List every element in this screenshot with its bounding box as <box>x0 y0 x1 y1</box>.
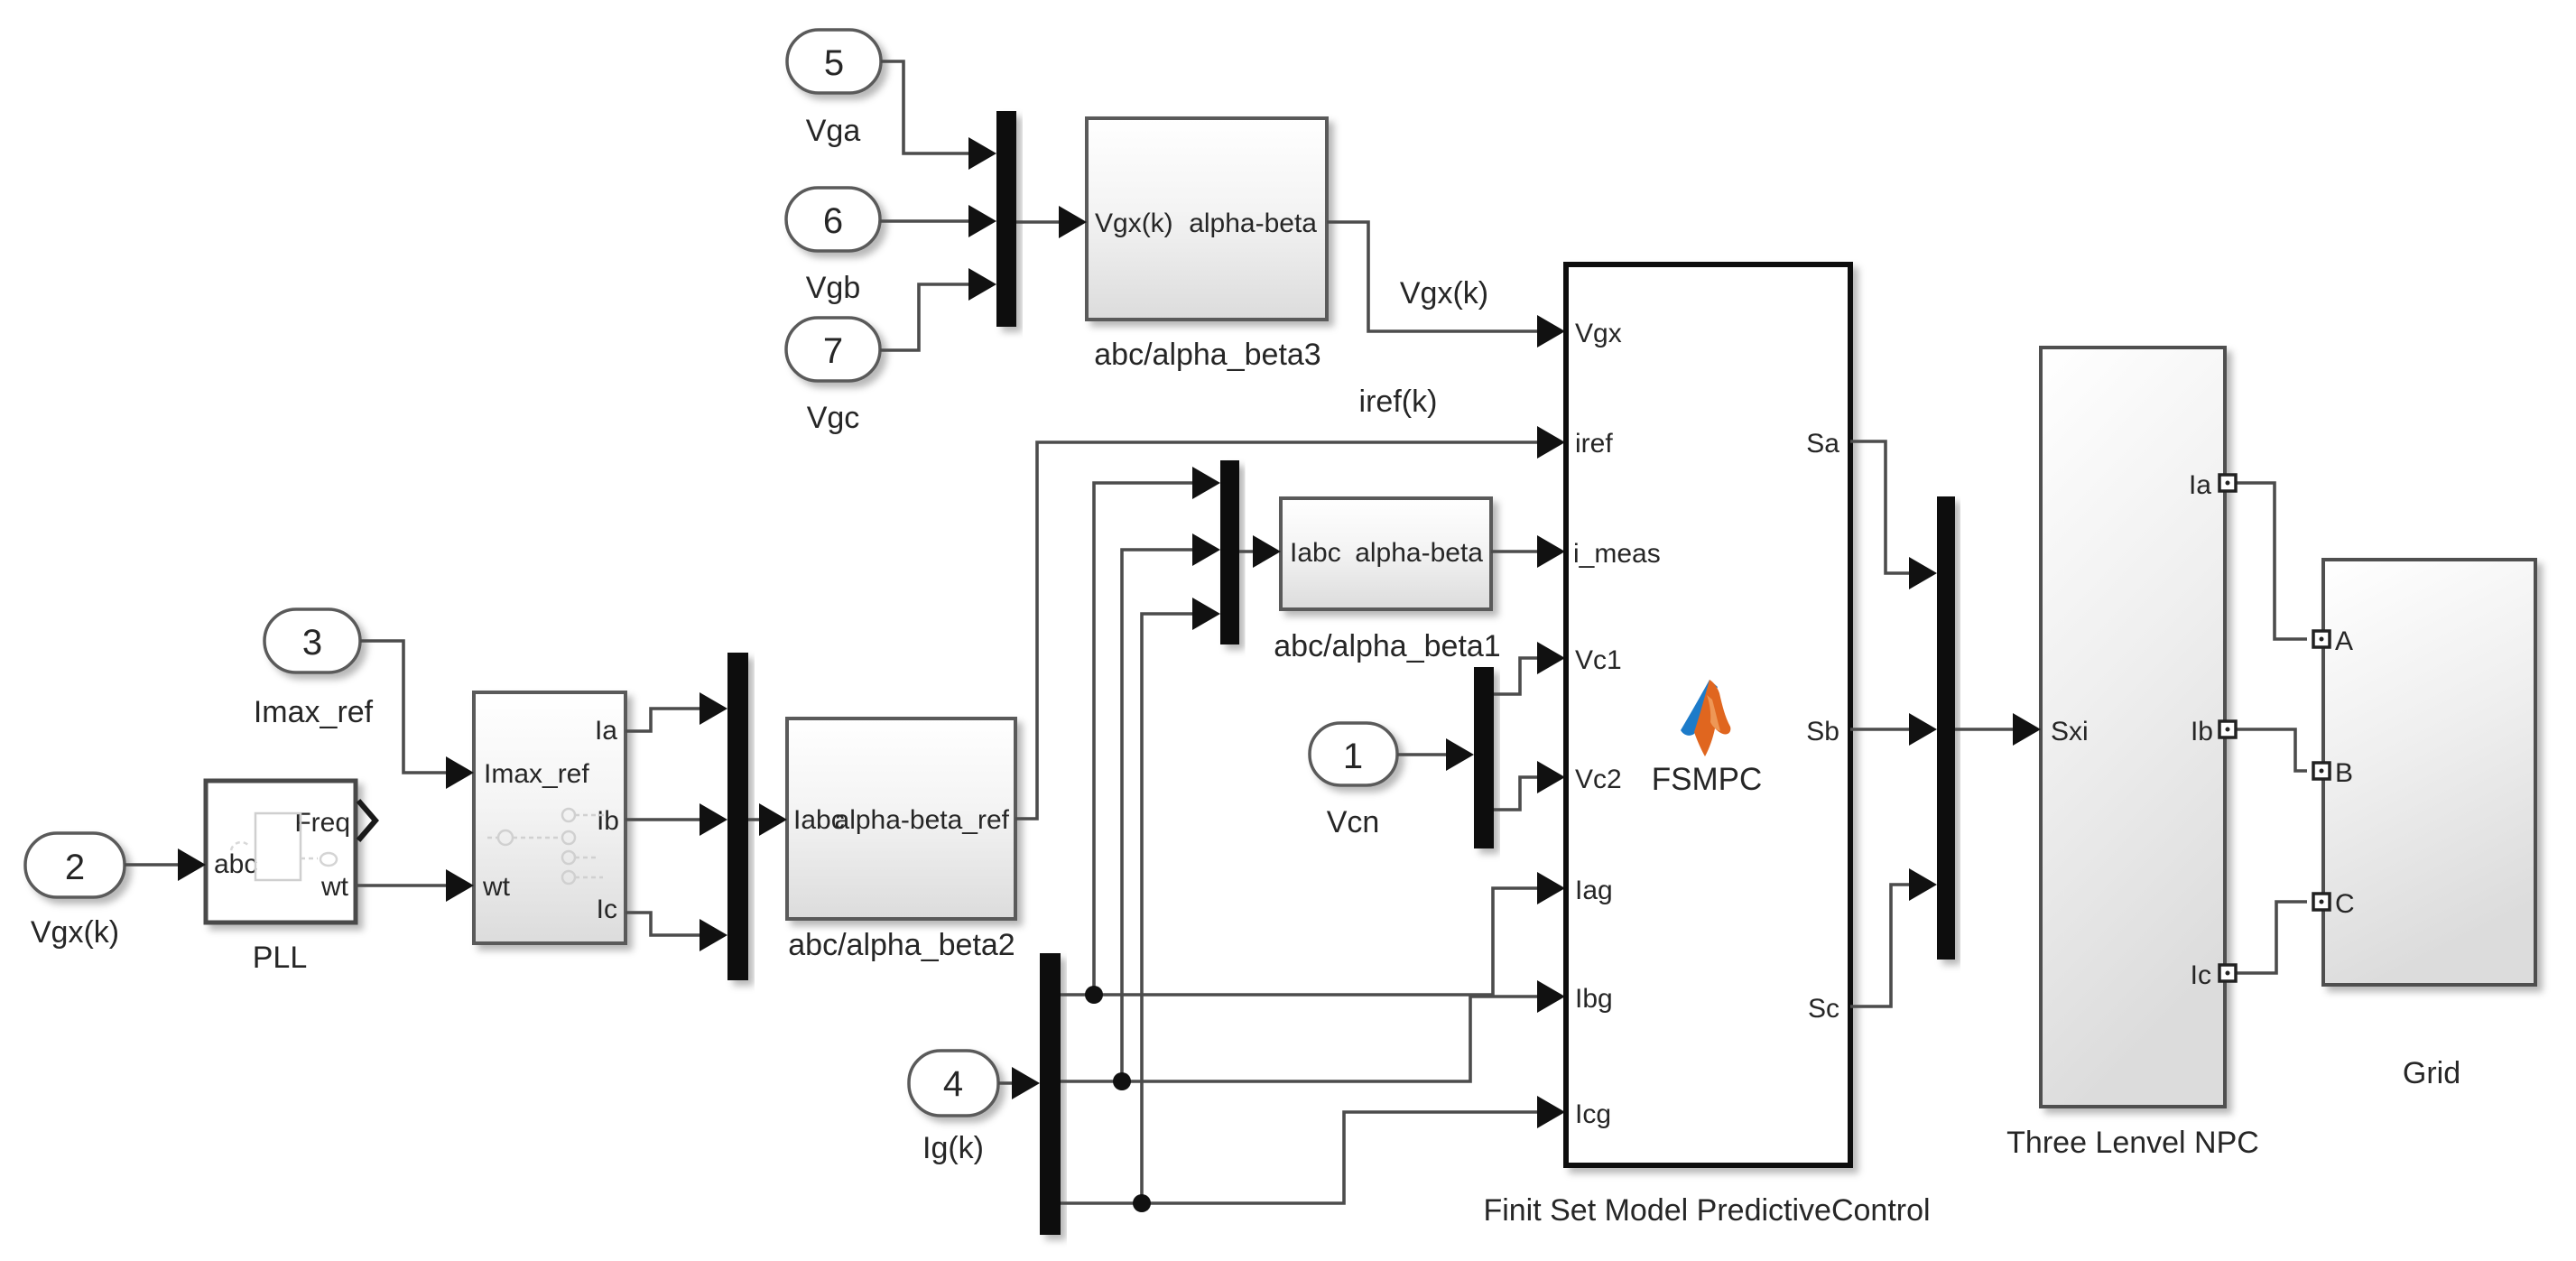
wire Ibg <box>1061 997 1542 1081</box>
junction node Icg <box>1133 1194 1151 1212</box>
svg-text:Vgx(k): Vgx(k) <box>31 915 119 950</box>
svg-text:Vc2: Vc2 <box>1575 765 1622 794</box>
svg-text:A: A <box>2335 626 2353 656</box>
svg-text:Vga: Vga <box>806 114 861 148</box>
svg-text:Sb: Sb <box>1806 717 1839 746</box>
svg-text:iref(k): iref(k) <box>1359 385 1438 419</box>
svg-text:Icg: Icg <box>1575 1099 1611 1129</box>
svg-text:1: 1 <box>1343 737 1363 776</box>
wire Ibg branch up to mux1 <box>1122 550 1197 1081</box>
wire Sc to mux <box>1850 885 1913 1006</box>
wire Vc1 <box>1494 658 1542 694</box>
wire 7 to mux <box>880 284 973 350</box>
wire NPC Ia to Grid A <box>2237 483 2307 639</box>
inport 4 <box>909 1051 998 1116</box>
wire mux to abc/alpha_beta3 <box>1016 220 1063 224</box>
wire iref(k) to FSMPC iref <box>1015 442 1542 819</box>
svg-text:Ibg: Ibg <box>1575 984 1613 1014</box>
demux Ig <box>1040 953 1061 1235</box>
svg-text:Ia: Ia <box>2189 470 2211 500</box>
wire Sa to mux <box>1850 441 1913 573</box>
wire NPC Ib to Grid B <box>2237 729 2307 771</box>
svg-text:Sa: Sa <box>1806 429 1839 459</box>
svg-text:Iag: Iag <box>1575 876 1613 905</box>
svg-text:Ib: Ib <box>597 806 619 836</box>
wire generator Ib to mux <box>625 818 704 821</box>
mux S (output) <box>1937 496 1955 960</box>
mux abc_alpha_beta1 <box>1220 460 1239 644</box>
svg-text:abc/alpha_beta1: abc/alpha_beta1 <box>1274 629 1500 663</box>
wire generator Ia to mux <box>625 709 704 731</box>
svg-text:i_meas: i_meas <box>1573 539 1661 569</box>
svg-text:iref: iref <box>1575 429 1613 459</box>
svg-text:Freq: Freq <box>294 808 350 838</box>
wire NPC Ic to Grid C <box>2237 902 2307 973</box>
svg-text:2: 2 <box>65 848 85 887</box>
inport 2 <box>25 833 125 897</box>
matlab logo <box>1681 680 1730 756</box>
wire 3 to Imax_ref <box>360 641 450 773</box>
port pad NPC Ib <box>2219 721 2236 737</box>
wire Iag <box>1061 888 1542 995</box>
inport 1 <box>1310 723 1397 785</box>
port pad Grid A <box>2313 631 2330 647</box>
wire mux to Sxi <box>1955 728 2017 731</box>
port pad Grid B <box>2313 763 2330 779</box>
svg-text:6: 6 <box>823 201 843 241</box>
svg-text:alpha-beta: alpha-beta <box>1189 209 1317 238</box>
svg-text:Ia: Ia <box>595 716 617 746</box>
port pad Grid C <box>2313 894 2330 910</box>
wire Iag branch up to mux1 <box>1094 483 1197 995</box>
wire Sb to mux <box>1850 728 1913 731</box>
port pad NPC Ia <box>2219 475 2236 491</box>
svg-text:5: 5 <box>824 43 844 83</box>
mux Vg (top) <box>996 111 1016 327</box>
junction node Iag <box>1085 986 1103 1004</box>
svg-text:Grid: Grid <box>2403 1056 2460 1090</box>
svg-text:Three Lenvel NPC: Three Lenvel NPC <box>2006 1126 2259 1160</box>
svg-text:Vcn: Vcn <box>1327 805 1380 839</box>
svg-text:C: C <box>2335 889 2355 919</box>
svg-text:3: 3 <box>302 623 322 663</box>
inport 6 <box>786 188 880 251</box>
block abc/alpha_beta2 <box>787 719 1015 919</box>
svg-text:wt: wt <box>320 872 349 902</box>
inport 7 <box>786 318 880 381</box>
svg-text:Vc1: Vc1 <box>1575 645 1622 675</box>
svg-text:Finit Set Model PredictiveCont: Finit Set Model PredictiveControl <box>1483 1193 1930 1228</box>
svg-text:Sc: Sc <box>1808 994 1839 1024</box>
wire Icg <box>1061 1112 1542 1203</box>
wire abc/alpha_beta1 to i_meas <box>1491 550 1542 553</box>
block Three Lenvel NPC <box>2041 348 2225 1107</box>
block PLL <box>206 781 356 923</box>
wire 1 to demux Vcn <box>1397 753 1450 756</box>
wire Vgx(k) to FSMPC <box>1327 222 1542 331</box>
svg-text:Vgc: Vgc <box>807 401 860 435</box>
svg-text:Ib: Ib <box>2191 717 2213 746</box>
wire Vc2 <box>1494 777 1542 810</box>
PLL Freq open port <box>358 801 375 840</box>
svg-text:B: B <box>2335 758 2353 788</box>
svg-text:Ic: Ic <box>597 895 617 924</box>
wire 4 to demux Ig <box>998 1081 1016 1085</box>
svg-text:4: 4 <box>943 1064 963 1104</box>
wire mux to abc/alpha_beta2 <box>748 818 764 821</box>
svg-text:abc/alpha_beta2: abc/alpha_beta2 <box>788 928 1015 962</box>
demux Vcn <box>1474 667 1494 848</box>
block FSMPC (Finit Set Model Predictive Control) <box>1566 264 1850 1165</box>
wire PLL wt to generator <box>356 884 450 887</box>
svg-text:Vgx: Vgx <box>1575 319 1622 348</box>
svg-text:alpha-beta_ref: alpha-beta_ref <box>835 805 1010 835</box>
svg-text:Iabc: Iabc <box>1290 538 1341 568</box>
svg-text:Vgx(k): Vgx(k) <box>1400 276 1488 311</box>
svg-text:Vgx(k): Vgx(k) <box>1095 209 1173 238</box>
svg-text:Imax_ref: Imax_ref <box>484 759 589 789</box>
inport 3 <box>264 609 360 672</box>
junction node Ibg <box>1113 1072 1131 1090</box>
wire 2 to PLL <box>125 863 182 867</box>
svg-text:7: 7 <box>823 331 843 371</box>
wire mux1 to abc/alpha_beta1 <box>1239 550 1257 553</box>
svg-text:Imax_ref: Imax_ref <box>254 695 374 729</box>
block Grid <box>2323 560 2535 985</box>
svg-text:alpha-beta: alpha-beta <box>1355 538 1483 568</box>
svg-text:wt: wt <box>482 872 511 902</box>
wire 6 to mux <box>880 219 973 223</box>
port pad NPC Ic <box>2219 965 2236 981</box>
svg-text:abc: abc <box>214 849 257 879</box>
block abc/alpha_beta1 <box>1281 498 1491 609</box>
block sine generator Imax_ref <box>474 692 625 943</box>
svg-text:Sxi: Sxi <box>2051 717 2089 746</box>
inport 5 <box>787 30 881 93</box>
mux Iabc_ref <box>727 653 748 980</box>
svg-text:abc/alpha_beta3: abc/alpha_beta3 <box>1094 338 1320 372</box>
wire generator Ic to mux <box>625 913 704 935</box>
svg-text:Ic: Ic <box>2191 960 2211 990</box>
svg-text:Vgb: Vgb <box>806 271 861 305</box>
block abc/alpha_beta3 <box>1087 118 1327 320</box>
wire 5 to mux <box>881 61 973 153</box>
svg-text:FSMPC: FSMPC <box>1652 762 1763 797</box>
svg-text:Ig(k): Ig(k) <box>922 1131 984 1165</box>
wire Icg branch up to mux1 <box>1142 614 1197 1203</box>
arrowheads <box>968 137 996 170</box>
svg-text:PLL: PLL <box>253 941 308 975</box>
